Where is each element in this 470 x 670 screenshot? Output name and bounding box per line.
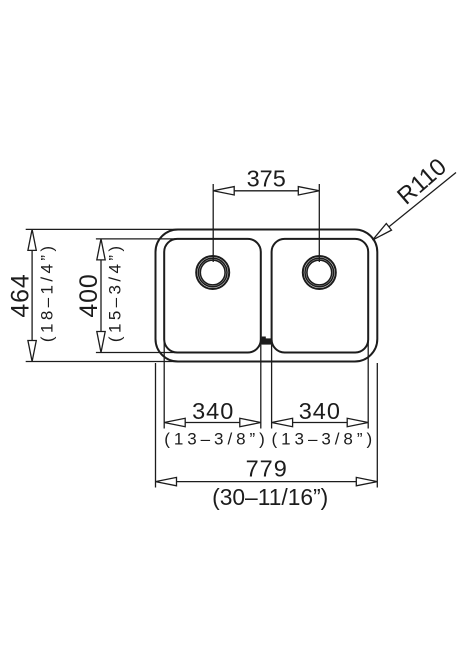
svg-text:464: 464 xyxy=(6,273,34,317)
left 400 extension lines xyxy=(96,238,182,240)
340L left arrow xyxy=(164,418,185,426)
bottom extension lines xyxy=(155,363,157,488)
left bowl xyxy=(164,239,261,353)
400 bottom arrow xyxy=(97,332,105,353)
svg-text:340: 340 xyxy=(192,398,234,424)
464 top arrow xyxy=(28,229,36,250)
svg-text:779: 779 xyxy=(246,456,288,482)
left 464 extension lines xyxy=(26,228,180,230)
375 right arrow xyxy=(298,187,319,195)
340 left dimension line xyxy=(185,422,240,424)
drain connector bar between bowls xyxy=(261,337,272,345)
svg-text:375: 375 xyxy=(247,166,286,192)
375 extension lines xyxy=(212,184,214,262)
sink outer rim xyxy=(156,230,378,362)
R110 leader line xyxy=(373,173,456,241)
R110 arrow xyxy=(373,224,392,241)
right drain xyxy=(303,256,336,289)
svg-text:(18–1/4”): (18–1/4”) xyxy=(37,243,56,343)
400 top arrow xyxy=(97,239,105,260)
464 bottom arrow xyxy=(28,341,36,362)
340 right dimension line xyxy=(293,422,348,424)
extension + dimension lines xyxy=(26,173,456,488)
340L right arrow xyxy=(240,418,261,426)
svg-text:340: 340 xyxy=(299,398,341,424)
779 left arrow xyxy=(156,477,177,485)
left drain xyxy=(196,256,229,289)
open arrowheads xyxy=(28,187,392,486)
375 left arrow xyxy=(213,187,234,195)
400 dimension line xyxy=(100,260,102,332)
375 dimension line xyxy=(234,190,298,192)
464 dimension line xyxy=(31,250,33,340)
779 right arrow xyxy=(356,477,377,485)
svg-text:(13–3/8”): (13–3/8”) xyxy=(164,430,269,449)
right bowl xyxy=(272,239,369,353)
svg-text:(15–3/4”): (15–3/4”) xyxy=(105,243,124,343)
340R left arrow xyxy=(272,418,293,426)
svg-text:400: 400 xyxy=(75,273,103,317)
svg-text:(30–11/16”): (30–11/16”) xyxy=(212,484,328,510)
779 dimension line xyxy=(177,481,357,483)
340R right arrow xyxy=(347,418,368,426)
svg-text:(13–3/8”): (13–3/8”) xyxy=(272,430,377,449)
